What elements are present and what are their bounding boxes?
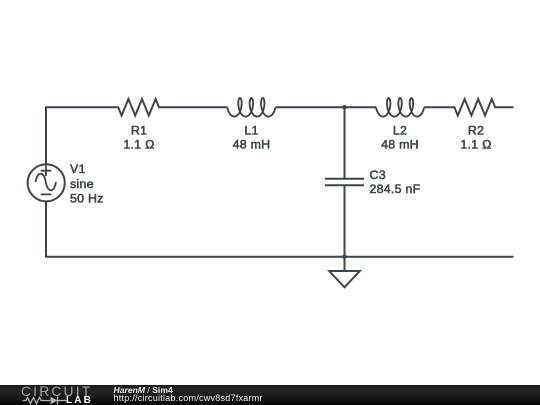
svg-text:R1: R1 bbox=[131, 123, 147, 137]
svg-text:sine: sine bbox=[70, 177, 94, 191]
svg-text:1.1 Ω: 1.1 Ω bbox=[460, 138, 491, 152]
svg-text:50 Hz: 50 Hz bbox=[70, 191, 104, 205]
svg-text:48 mH: 48 mH bbox=[233, 138, 271, 152]
svg-text:48 mH: 48 mH bbox=[381, 138, 419, 152]
svg-text:C3: C3 bbox=[370, 168, 386, 182]
svg-text:1.1 Ω: 1.1 Ω bbox=[123, 138, 154, 152]
svg-text:L1: L1 bbox=[244, 123, 258, 137]
svg-text:284.5 nF: 284.5 nF bbox=[370, 182, 421, 196]
svg-text:L2: L2 bbox=[393, 123, 407, 137]
svg-text:V1: V1 bbox=[70, 162, 86, 176]
svg-text:R2: R2 bbox=[468, 123, 484, 137]
